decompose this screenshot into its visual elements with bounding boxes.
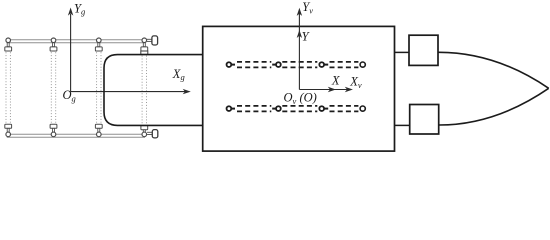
tool gang 3 top hitch ring — [97, 38, 102, 43]
tool gang 3 left drag line (dotted) — [96, 52, 98, 122]
rear tine row eyelet 3 (ring with right stub) — [319, 106, 324, 111]
vehicle frame Xv axis line — [299, 89, 347, 91]
tool gang 2 bottom shackle — [50, 124, 57, 128]
front tine row dashed rod segment B — [282, 62, 317, 68]
tool gang 2 top shackle — [50, 47, 57, 51]
rear tine row eyelet 1 (ring with right stub) — [227, 106, 232, 111]
Yv arrowhead — [297, 8, 302, 16]
rear tine row end ring — [360, 106, 365, 111]
tool gang 4 bottom link — [143, 130, 145, 134]
rear tine row dashed rod segment B — [282, 106, 317, 112]
rear tine row dashed rod segment A — [237, 106, 271, 112]
tool gang 4 top link — [143, 43, 145, 47]
top hitch lug — [152, 36, 158, 45]
implement frame Yg axis — [70, 14, 72, 92]
svg-text:X: X — [331, 74, 341, 88]
X arrowhead (inner frame) — [328, 87, 336, 92]
bottom wheel (square) — [410, 105, 439, 135]
tool gang 4 bottom shackle — [141, 126, 148, 130]
front tine row eyelet 2 (ring with left stub) — [272, 64, 276, 66]
tool gang 4 right drag line (dotted) — [146, 56, 148, 125]
top axle connector — [395, 51, 410, 53]
tool gang 3 bottom hitch ring — [97, 132, 102, 137]
svg-text:Ov (O): Ov (O) — [284, 91, 317, 106]
tool gang 1 bottom shackle — [5, 124, 12, 128]
front tine row dashed rod segment A — [237, 62, 271, 68]
tool gang 4 bottom hitch ring — [142, 132, 147, 137]
front tine row end ring — [360, 62, 365, 67]
tool gang 2 right drag line (dotted) — [55, 52, 57, 122]
tool gang 3 right drag line (dotted) — [100, 52, 102, 122]
tool gang 2 left drag line (dotted) — [50, 52, 52, 122]
tool gang 4 top shackle — [141, 47, 148, 51]
front tine row eyelet 1 (ring with right stub) — [227, 62, 232, 67]
tool gang 1 right drag line (dotted) — [9, 52, 11, 122]
tool gang 3 bottom shackle — [95, 124, 102, 128]
tool gang 1 top shackle — [5, 47, 12, 51]
Xg arrowhead — [183, 89, 191, 94]
implement bottom rail (double bar) — [7, 134, 145, 137]
drawbar frame (rounded U) — [104, 55, 203, 126]
bottom hitch link to lug (double line) — [147, 132, 152, 134]
tool gang 3 bottom link — [98, 128, 100, 132]
tool gang 4 top hitch ring — [142, 38, 147, 43]
implement frame Xg axis — [71, 91, 186, 93]
tool gang 4 clamp plate on drawbar frame — [141, 51, 148, 54]
tool gang 2 top hitch ring — [51, 38, 56, 43]
implement top rail (double bar) — [7, 40, 145, 43]
top wheel (square) — [409, 35, 438, 65]
tool gang 2 bottom link — [53, 128, 55, 132]
tool gang 1 top hitch ring — [6, 38, 11, 43]
tool gang 1 top link — [7, 43, 9, 47]
rear tine row dashed rod segment C — [330, 106, 359, 112]
Xv arrowhead — [345, 87, 353, 92]
nose cone upper arc — [438, 52, 548, 88]
tool gang 1 left drag line (dotted) — [5, 52, 7, 122]
tool gang 1 bottom link — [7, 128, 9, 132]
top hitch link to lug (double line) — [147, 39, 152, 41]
tool gang 2 top link — [53, 43, 55, 47]
tool gang 1 bottom hitch ring — [6, 132, 11, 137]
rear tine row eyelet 2 (ring with left stub) — [272, 108, 276, 110]
vehicle frame Yv axis line — [298, 14, 300, 90]
tool gang 3 top link — [98, 43, 100, 47]
tool gang 2 bottom hitch ring — [51, 132, 56, 137]
nose cone lower arc — [439, 88, 549, 125]
front tine row eyelet 3 (ring with right stub) — [319, 62, 324, 67]
tool gang 3 top shackle — [95, 47, 102, 51]
bottom hitch lug — [152, 130, 158, 138]
bottom axle connector — [395, 124, 410, 126]
vehicle body rectangle — [203, 26, 395, 151]
Yg arrowhead — [68, 8, 73, 16]
Y arrowhead (inner frame) — [297, 30, 302, 38]
tool gang 4 left drag line (dotted) — [141, 56, 143, 125]
front tine row dashed rod segment C — [330, 62, 359, 68]
